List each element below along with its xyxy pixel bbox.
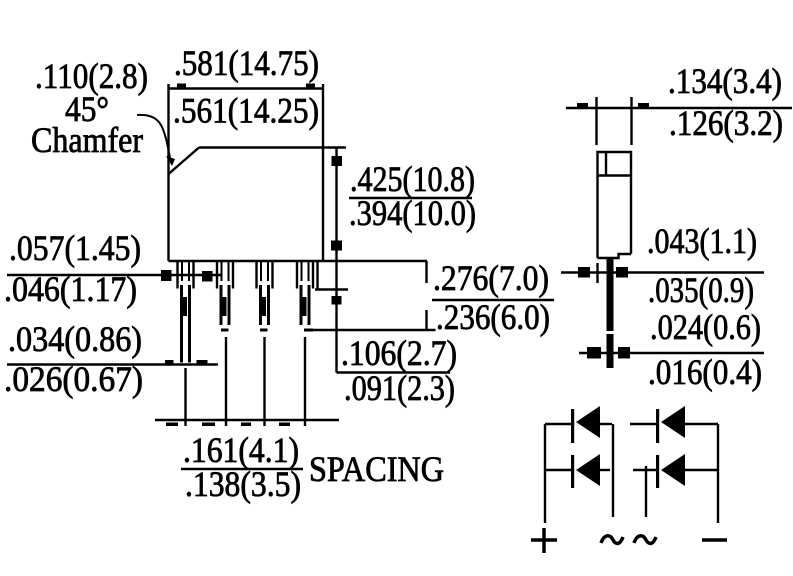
svg-text:.236(6.0): .236(6.0): [436, 297, 550, 337]
svg-text:.561(14.25): .561(14.25): [173, 91, 319, 131]
svg-text:SPACING: SPACING: [309, 449, 444, 489]
svg-text:.024(0.6): .024(0.6): [650, 307, 761, 347]
svg-text:.026(0.67): .026(0.67): [4, 359, 143, 399]
svg-text:.057(1.45): .057(1.45): [9, 228, 141, 268]
svg-text:.016(0.4): .016(0.4): [648, 352, 762, 392]
svg-text:.138(3.5): .138(3.5): [185, 464, 301, 504]
svg-text:Chamfer: Chamfer: [31, 120, 143, 160]
svg-text:.126(3.2): .126(3.2): [669, 103, 783, 143]
svg-text:.394(10.0): .394(10.0): [349, 193, 476, 233]
svg-text:.046(1.17): .046(1.17): [4, 269, 137, 309]
svg-text:.091(2.3): .091(2.3): [344, 368, 455, 408]
svg-text:.134(3.4): .134(3.4): [668, 61, 782, 101]
svg-text:.581(14.75): .581(14.75): [174, 43, 319, 83]
svg-text:.106(2.7): .106(2.7): [341, 333, 457, 373]
svg-text:.276(7.0): .276(7.0): [433, 258, 549, 298]
svg-text:.035(0.9): .035(0.9): [648, 270, 754, 310]
svg-text:.043(1.1): .043(1.1): [647, 221, 757, 261]
svg-text:.034(0.86): .034(0.86): [8, 319, 142, 359]
